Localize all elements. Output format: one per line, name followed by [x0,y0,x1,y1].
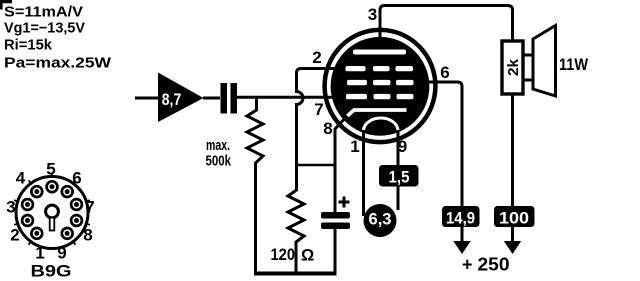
svg-text:11W: 11W [559,55,589,74]
svg-text:9: 9 [57,244,66,263]
svg-text:6: 6 [440,63,449,82]
svg-text:Pa=max.25W: Pa=max.25W [4,54,112,71]
svg-text:7: 7 [314,100,323,119]
svg-text:4: 4 [16,169,26,188]
svg-text:7: 7 [85,198,94,217]
svg-text:8: 8 [83,226,92,245]
svg-text:6: 6 [72,169,81,188]
svg-text:14,9: 14,9 [446,209,475,228]
svg-text:6,3: 6,3 [369,210,392,229]
svg-text:500k: 500k [206,153,232,170]
svg-text:+: + [462,255,473,275]
svg-text:5: 5 [46,160,55,179]
svg-text:Vg1=−13,5V: Vg1=−13,5V [4,20,85,37]
svg-text:8,7: 8,7 [162,91,182,109]
svg-text:1: 1 [350,137,359,156]
svg-text:B9G: B9G [31,262,72,281]
svg-text:120: 120 [271,246,296,264]
svg-text:250: 250 [478,255,510,275]
svg-text:100: 100 [499,209,529,228]
svg-text:2k: 2k [505,58,522,76]
svg-text:9: 9 [398,137,407,156]
svg-text:1,5: 1,5 [389,168,410,187]
svg-text:Ω: Ω [301,247,314,265]
svg-text:1: 1 [35,244,44,263]
svg-text:3: 3 [368,5,377,24]
svg-text:2: 2 [312,48,321,67]
svg-text:Ri=15k: Ri=15k [4,37,53,54]
svg-text:8: 8 [323,119,332,138]
svg-text:max.: max. [206,137,230,154]
svg-text:S=11mA/V: S=11mA/V [4,3,83,20]
svg-text:3: 3 [6,198,15,217]
svg-text:2: 2 [10,226,19,245]
